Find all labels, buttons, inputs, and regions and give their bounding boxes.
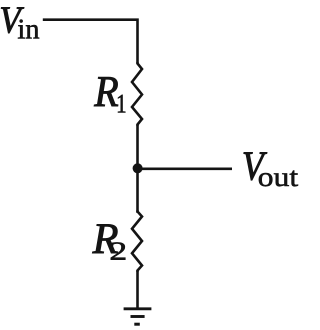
wire horizontal from node to Vout terminal	[138, 168, 233, 171]
resistor R1 label: letter R	[94, 77, 118, 106]
resistor R2 zigzag body	[132, 210, 142, 272]
label Vout: subscript out	[259, 171, 298, 187]
ground bar 2 (middle)	[131, 315, 145, 318]
wire from R1 bottom to node	[136, 125, 139, 169]
resistor R2 label: subscript 2	[111, 242, 126, 259]
label Vin: subscript in	[18, 20, 39, 39]
ground bar 3 (bottom, shortest)	[134, 323, 140, 326]
resistor R1 zigzag body	[132, 62, 142, 126]
wire vertical from node down to R2 top	[136, 168, 139, 213]
label Vin: letter V	[1, 7, 24, 33]
resistor R2 label: letter R	[92, 224, 117, 253]
wire from R2 bottom to ground	[136, 271, 139, 309]
wire: Vin lead, corner, down to resistor R1	[43, 20, 138, 64]
ground bar 1 (top, widest)	[124, 307, 152, 310]
node junction dot at Vout tap	[133, 163, 143, 173]
label Vout: letter V	[244, 152, 267, 180]
resistor R1 label: subscript 1	[118, 95, 125, 113]
